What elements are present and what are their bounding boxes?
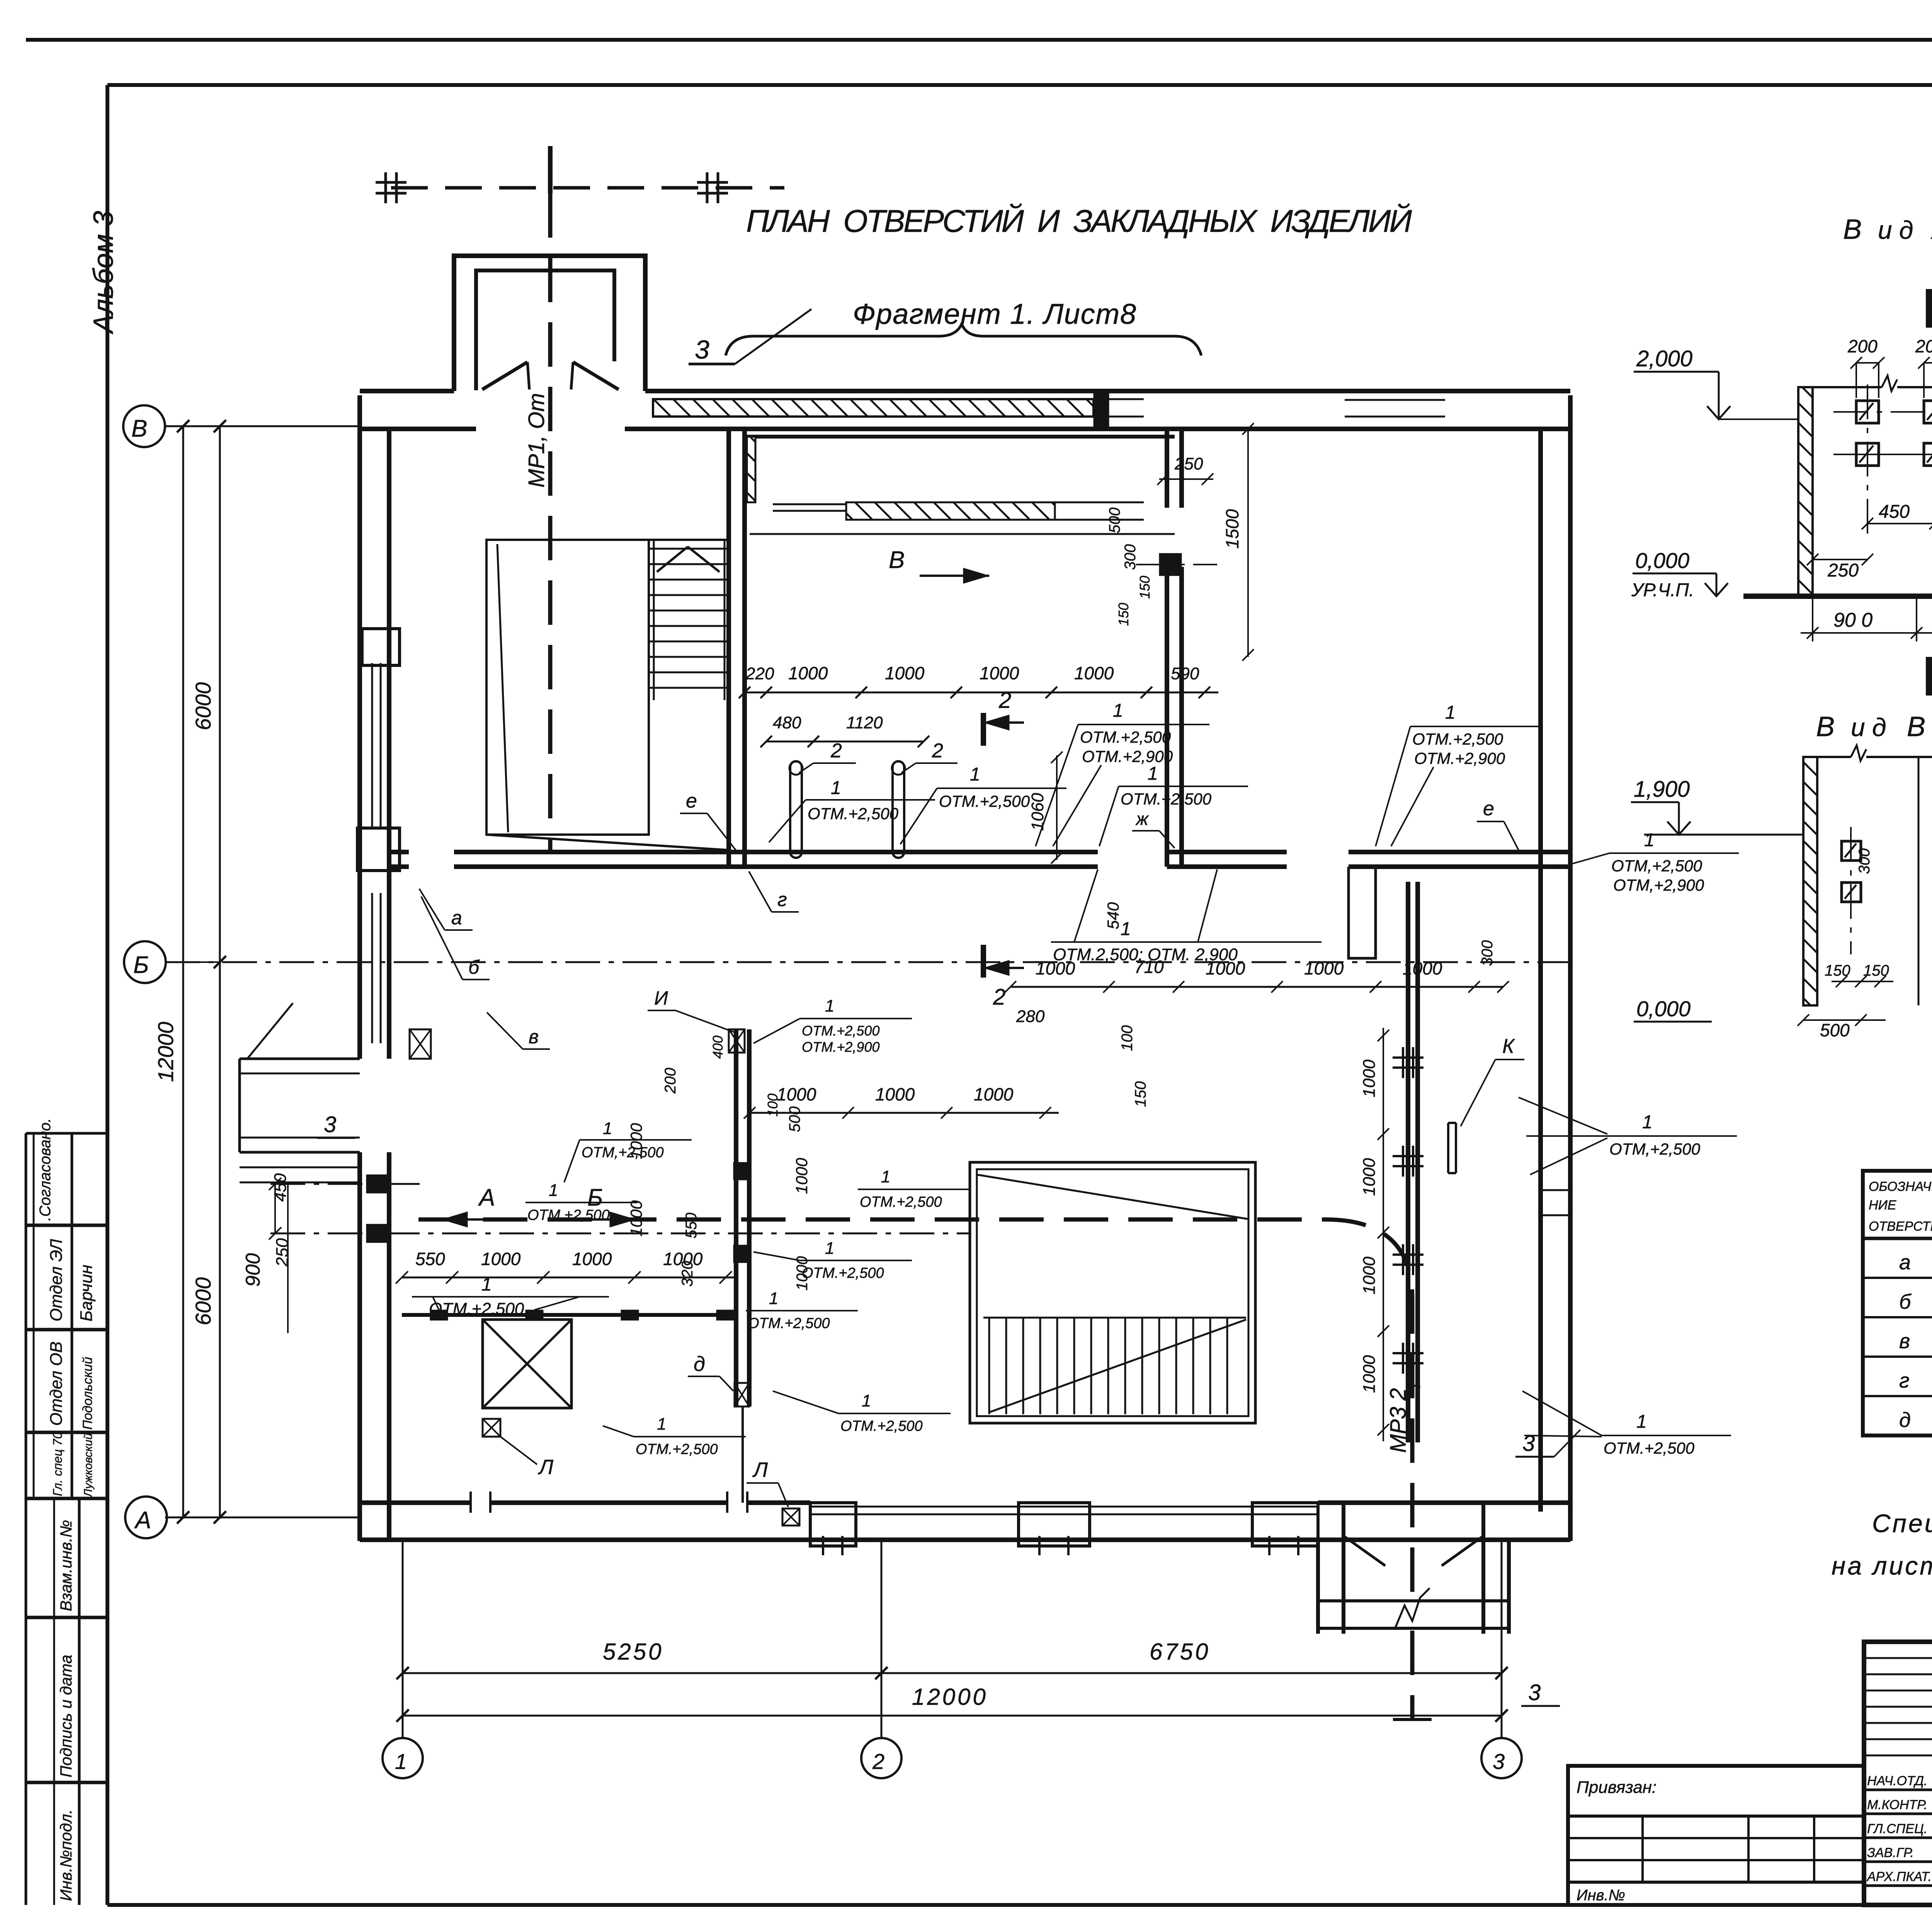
svg-text:в: в <box>529 1026 539 1048</box>
svg-text:1: 1 <box>881 1167 890 1186</box>
svg-text:В: В <box>1843 214 1863 245</box>
stair side rails <box>653 540 655 700</box>
grid circle 3 <box>1481 1738 1522 1778</box>
svg-text:ОТМ.+2,500: ОТМ.+2,500 <box>939 792 1030 810</box>
pillar wall I tail <box>742 1406 744 1503</box>
svg-text:1000: 1000 <box>1360 1355 1379 1393</box>
svg-text:Барчин: Барчин <box>77 1265 96 1321</box>
svg-text:1: 1 <box>1113 701 1123 721</box>
svg-text:ОТМ.+2,500: ОТМ.+2,500 <box>429 1299 524 1318</box>
middle room top dim chain <box>745 692 1218 694</box>
svg-text:ОТМ.+2,500: ОТМ.+2,500 <box>802 1023 880 1039</box>
svg-text:550: 550 <box>683 1213 700 1238</box>
inlet extension inner wall <box>476 270 614 390</box>
svg-text:1000: 1000 <box>572 1249 612 1269</box>
inlet extension outer wall <box>454 256 645 391</box>
sidebar outer line <box>25 1133 27 1905</box>
north wall window hatch band <box>653 399 1094 417</box>
right interior wall <box>1406 882 1410 1442</box>
north wall window thin lines 3 <box>1345 399 1445 401</box>
svg-text:540: 540 <box>1104 902 1122 929</box>
dim chain bottom left <box>402 1277 735 1279</box>
stair in left room <box>649 548 729 550</box>
svg-text:ОТМ.+2,900: ОТМ.+2,900 <box>1082 747 1173 765</box>
svg-text:а: а <box>1899 1251 1911 1274</box>
svg-text:2,000: 2,000 <box>1636 346 1692 371</box>
holes table left grid <box>1863 1171 1932 1435</box>
svg-text:1000: 1000 <box>1036 958 1075 978</box>
svg-text:550: 550 <box>415 1249 445 1269</box>
svg-text:12000: 12000 <box>912 1684 988 1710</box>
svg-text:2: 2 <box>872 1749 884 1774</box>
grid circle 2 <box>861 1738 901 1778</box>
svg-text:1: 1 <box>862 1391 871 1410</box>
svg-text:400: 400 <box>710 1036 726 1059</box>
grid circle B2 row <box>124 941 166 983</box>
south wall glazing lines <box>810 1506 1318 1508</box>
svg-text:1000: 1000 <box>1360 1060 1379 1097</box>
svg-text:ОТМ.+2,500: ОТМ.+2,500 <box>840 1418 923 1434</box>
leader L1 <box>500 1437 537 1464</box>
svg-text:ж: ж <box>1135 809 1149 829</box>
svg-text:ОТМ.+2,500: ОТМ.+2,500 <box>1412 730 1503 748</box>
section mark 2 upper <box>981 713 986 746</box>
axis 1 vertical <box>402 1540 404 1738</box>
svg-text:1000: 1000 <box>1074 663 1114 683</box>
svg-text:.Согласовано.: .Согласовано. <box>37 1118 54 1221</box>
svg-text:К: К <box>1502 1035 1515 1058</box>
south wall piers <box>810 1503 856 1546</box>
svg-text:г: г <box>777 889 787 910</box>
drawing frame top <box>107 83 1932 87</box>
svg-text:Гл. спец 70: Гл. спец 70 <box>51 1432 65 1496</box>
svg-text:ОТМ.+2,500: ОТМ.+2,500 <box>1121 790 1212 808</box>
right wall vertical dim chain <box>1383 1028 1384 1441</box>
bottom spillway walls <box>1316 1540 1320 1634</box>
svg-text:1000: 1000 <box>793 1158 811 1194</box>
svg-text:ОТМ.+2,500: ОТМ.+2,500 <box>1080 728 1171 746</box>
view A ground line <box>1743 594 1932 599</box>
svg-text:250: 250 <box>1174 454 1203 473</box>
svg-text:Подпись и дата: Подпись и дата <box>57 1655 75 1777</box>
bottom dim line 5250-6750 <box>403 1672 1502 1674</box>
view V embed squares <box>1842 841 1861 861</box>
svg-text:В: В <box>889 547 905 573</box>
svg-text:и д: и д <box>1878 216 1913 244</box>
svg-text:90 0: 90 0 <box>1833 609 1872 631</box>
svg-text:300: 300 <box>1479 940 1496 966</box>
privyazan box <box>1568 1766 1864 1905</box>
svg-text:1: 1 <box>1445 702 1456 723</box>
hatched square d on I wall <box>735 1383 749 1406</box>
MP3 break symbol <box>1395 1588 1430 1629</box>
svg-text:д: д <box>694 1352 705 1376</box>
svg-text:д: д <box>1899 1408 1911 1432</box>
svg-text:1000: 1000 <box>974 1084 1014 1104</box>
svg-text:а: а <box>451 907 462 929</box>
dim 1060 vertical <box>1056 755 1058 860</box>
svg-text:1: 1 <box>1644 830 1655 850</box>
svg-text:1: 1 <box>481 1274 492 1295</box>
svg-text:0,000: 0,000 <box>1636 997 1690 1021</box>
svg-text:2: 2 <box>998 688 1011 713</box>
svg-text:1000: 1000 <box>875 1084 915 1104</box>
svg-text:Отдел ОВ: Отдел ОВ <box>47 1342 66 1426</box>
svg-text:900: 900 <box>242 1253 264 1287</box>
view V axis vertical <box>1850 827 1852 954</box>
grid circle 1 <box>383 1738 423 1778</box>
svg-text:ОТМ.+2,500: ОТМ.+2,500 <box>748 1315 830 1332</box>
svg-text:100: 100 <box>765 1094 781 1117</box>
hatched junction square <box>410 1029 431 1059</box>
inlet funnel slants <box>482 362 527 389</box>
west wall <box>357 395 362 1059</box>
svg-text:2: 2 <box>993 985 1005 1010</box>
svg-text:ОТВЕРСТИЙ: ОТВЕРСТИЙ <box>1869 1219 1932 1234</box>
axis MP1 dashed vertical <box>548 146 553 193</box>
axis Bmid dash-dot <box>165 961 1570 963</box>
svg-text:в: в <box>1899 1330 1910 1353</box>
svg-text:1500: 1500 <box>1222 509 1242 549</box>
pillar wall I <box>734 1029 738 1406</box>
svg-text:ЗАВ.ГР.: ЗАВ.ГР. <box>1867 1845 1914 1860</box>
svg-text:ПЛАН ОТВЕРСТИЙ И ЗАКЛАДНЫХ: ПЛАН ОТВЕРСТИЙ И ЗАКЛАДНЫХ ИЗДЕЛИЙ <box>746 203 1413 239</box>
axis MP3 dashed path <box>418 1219 1412 1592</box>
svg-text:1060: 1060 <box>1028 793 1047 831</box>
stair chevron <box>657 547 688 572</box>
svg-text:Лужковский: Лужковский <box>82 1433 95 1498</box>
svg-text:ОТМ,+2,900: ОТМ,+2,900 <box>1613 876 1704 894</box>
landing jog near 710 <box>1349 867 1376 958</box>
svg-text:Альбом 3: Альбом 3 <box>88 211 119 335</box>
svg-text:6750: 6750 <box>1150 1639 1210 1665</box>
plates on lower wall <box>430 1310 448 1320</box>
svg-text:150: 150 <box>1863 962 1889 979</box>
svg-text:220: 220 <box>745 664 774 683</box>
svg-text:НАЧ.ОТД.: НАЧ.ОТД. <box>1867 1774 1927 1788</box>
svg-text:3: 3 <box>1493 1749 1505 1774</box>
svg-text:320: 320 <box>679 1261 696 1287</box>
svg-text:ОТМ,+2,500: ОТМ,+2,500 <box>1609 1140 1701 1158</box>
svg-text:б: б <box>1899 1290 1912 1313</box>
dim chain 480-1120 <box>766 741 923 743</box>
svg-text:1000: 1000 <box>788 663 828 683</box>
svg-text:Б: Б <box>133 952 149 978</box>
svg-text:И: И <box>654 987 668 1009</box>
svg-text:Л: Л <box>538 1456 554 1479</box>
west entrance steps <box>240 1167 360 1168</box>
svg-text:ОТМ.+2,500: ОТМ.+2,500 <box>527 1207 610 1223</box>
svg-text:1000: 1000 <box>885 663 925 683</box>
tank slope line <box>977 1175 1248 1219</box>
svg-text:НИЕ: НИЕ <box>1869 1198 1896 1213</box>
svg-text:1: 1 <box>825 997 834 1015</box>
view A 200 dims <box>1856 362 1879 364</box>
svg-text:ГЛ.СПЕЦ.: ГЛ.СПЕЦ. <box>1867 1821 1927 1836</box>
svg-text:Л: Л <box>752 1458 768 1481</box>
svg-text:г: г <box>1899 1369 1910 1392</box>
svg-text:3: 3 <box>695 335 709 364</box>
svg-text:6000: 6000 <box>191 682 215 730</box>
view A section mark top <box>1926 289 1932 328</box>
machine pit thin outline <box>486 540 649 835</box>
svg-text:1120: 1120 <box>846 713 883 732</box>
svg-text:1,900: 1,900 <box>1634 777 1690 802</box>
vertical dim line 12000 <box>182 426 184 1517</box>
svg-text:300: 300 <box>1122 544 1139 570</box>
svg-text:А: А <box>478 1184 495 1211</box>
middle room north wall <box>746 427 1175 431</box>
sidebar signature block <box>33 1133 35 1498</box>
svg-text:Взам.инв.№: Взам.инв.№ <box>57 1520 75 1611</box>
dash-dot through west plates <box>270 1183 425 1185</box>
svg-text:200: 200 <box>662 1068 679 1094</box>
north wall outer line <box>360 389 454 393</box>
svg-text:6000: 6000 <box>191 1277 215 1325</box>
svg-text:450: 450 <box>271 1173 290 1202</box>
svg-text:450: 450 <box>1879 502 1910 522</box>
svg-text:150: 150 <box>1132 1081 1149 1107</box>
embedded black plates west wall <box>366 1175 388 1193</box>
view A wall strip <box>1798 387 1813 596</box>
gallery segment right <box>1055 502 1144 503</box>
gallery thin lines left <box>773 503 846 505</box>
svg-text:3: 3 <box>1522 1431 1535 1456</box>
extension lines to wall <box>165 425 183 427</box>
grid circle B row <box>123 405 165 447</box>
svg-text:Привязан:: Привязан: <box>1577 1778 1656 1797</box>
svg-text:250: 250 <box>273 1238 292 1267</box>
svg-text:В: В <box>131 415 147 442</box>
svg-text:1000: 1000 <box>1360 1158 1379 1196</box>
gallery hatch band <box>846 502 1055 520</box>
tank stair treads <box>988 1318 990 1414</box>
svg-text:1: 1 <box>657 1415 666 1434</box>
svg-text:ОТМ,+2,500: ОТМ,+2,500 <box>582 1145 664 1161</box>
svg-text:150: 150 <box>1137 576 1153 599</box>
svg-text:МР1, От: МР1, От <box>524 393 549 488</box>
section mark 2 lower <box>981 945 986 978</box>
svg-text:12000: 12000 <box>153 1022 178 1082</box>
svg-text:Инв.№подл.: Инв.№подл. <box>57 1810 75 1901</box>
svg-text:ОТМ,+2,500: ОТМ,+2,500 <box>1611 857 1702 875</box>
east wall <box>1538 429 1543 1512</box>
svg-text:1: 1 <box>1642 1112 1653 1133</box>
svg-text:М.КОНТР.: М.КОНТР. <box>1867 1798 1927 1812</box>
svg-text:е: е <box>1483 798 1494 820</box>
crossed box <box>483 1320 571 1408</box>
east wall window <box>1542 1189 1569 1191</box>
svg-text:ОТМ.+2,900: ОТМ.+2,900 <box>802 1039 880 1055</box>
sidebar std cells <box>53 1498 55 1905</box>
view V inner verticals <box>1918 757 1920 1005</box>
view A embed squares <box>1856 401 1879 423</box>
view V wall strip <box>1803 757 1817 1005</box>
view A 900 dim <box>1801 632 1932 634</box>
svg-text:1: 1 <box>603 1119 612 1138</box>
svg-text:150: 150 <box>1116 603 1131 626</box>
svg-text:1: 1 <box>769 1289 778 1308</box>
top dashed line with hash marks <box>391 186 784 190</box>
svg-text:1: 1 <box>1148 764 1158 784</box>
svg-text:5250: 5250 <box>603 1639 663 1665</box>
svg-text:ОТМ.+2,500: ОТМ.+2,500 <box>808 804 899 823</box>
svg-text:Подольский: Подольский <box>80 1357 95 1430</box>
south wall <box>360 1537 1570 1542</box>
dim chain 1000-710 below axis B wall <box>1010 986 1503 988</box>
svg-text:500: 500 <box>1820 1020 1850 1040</box>
west wall window glazing 2 <box>371 893 373 1043</box>
svg-text:3: 3 <box>1528 1680 1541 1705</box>
svg-text:ОТМ.+2,500: ОТМ.+2,500 <box>1604 1439 1695 1457</box>
drawing frame left <box>105 85 109 1905</box>
svg-text:1: 1 <box>549 1181 558 1200</box>
dim 1500 vertical right room <box>1247 427 1249 657</box>
svg-text:А: А <box>134 1507 151 1534</box>
channel bar 2 <box>893 761 904 858</box>
svg-text:2: 2 <box>830 740 842 762</box>
svg-text:Фрагмент 1. Лист8: Фрагмент 1. Лист8 <box>853 298 1138 330</box>
svg-text:е: е <box>686 790 697 812</box>
view A 250 dim <box>1813 559 1867 560</box>
svg-text:0,000: 0,000 <box>1635 548 1689 573</box>
title block small rows left <box>1864 1657 1932 1659</box>
svg-text:1: 1 <box>1121 919 1131 939</box>
svg-text:1000: 1000 <box>1304 958 1344 978</box>
svg-text:1000: 1000 <box>481 1249 521 1269</box>
embedded black plate top right <box>1159 553 1182 576</box>
svg-text:ОТМ.+2,500: ОТМ.+2,500 <box>860 1194 942 1210</box>
hash symbol 1 <box>384 172 387 203</box>
svg-text:280: 280 <box>1016 1007 1045 1026</box>
fragment brace <box>726 324 1201 355</box>
svg-text:150: 150 <box>1825 962 1850 979</box>
svg-text:1: 1 <box>970 764 980 785</box>
K detail bar <box>1447 1123 1449 1173</box>
svg-text:УР.Ч.П.: УР.Ч.П. <box>1631 580 1694 600</box>
svg-text:1: 1 <box>395 1749 407 1774</box>
title block outer <box>1864 1642 1932 1905</box>
svg-text:300: 300 <box>1856 848 1873 874</box>
axis 3 vertical dashed <box>1501 1540 1503 1738</box>
tank stair diagonal <box>989 1320 1246 1412</box>
machine pit bottom slant <box>486 835 729 850</box>
svg-text:2: 2 <box>932 740 943 762</box>
svg-text:590: 590 <box>1171 664 1199 683</box>
svg-text:100: 100 <box>1119 1025 1136 1051</box>
hash symbols on right wall <box>1402 1047 1404 1078</box>
svg-text:на листе 8.: на листе 8. <box>1832 1551 1932 1580</box>
svg-text:500: 500 <box>1106 507 1123 533</box>
svg-text:А: А <box>1930 214 1932 245</box>
svg-text:480: 480 <box>773 713 801 732</box>
svg-text:Т: Т <box>1405 1379 1424 1391</box>
dim chain near I wall top <box>750 1112 1059 1114</box>
svg-text:500: 500 <box>786 1106 803 1132</box>
svg-text:3: 3 <box>324 1112 336 1137</box>
svg-text:200: 200 <box>1915 336 1932 356</box>
svg-text:ОБОЗНАЧЕ-: ОБОЗНАЧЕ- <box>1869 1179 1932 1194</box>
svg-text:1000: 1000 <box>627 1200 645 1236</box>
svg-text:710: 710 <box>1134 957 1164 977</box>
svg-text:250: 250 <box>1827 560 1859 581</box>
hatched square L2 <box>782 1509 799 1526</box>
axis B wall band <box>389 850 409 854</box>
svg-text:1: 1 <box>1636 1412 1647 1432</box>
svg-text:1: 1 <box>831 778 841 798</box>
west entrance walls <box>240 1058 360 1060</box>
svg-text:ОТМ.+2,500: ОТМ.+2,500 <box>802 1265 884 1281</box>
svg-text:1000: 1000 <box>980 663 1019 683</box>
wall at lower hall south <box>402 1313 735 1317</box>
hatched square near I top <box>729 1029 745 1053</box>
svg-text:Спецификацию закладных: Спецификацию закладных <box>1872 1509 1932 1537</box>
embedded black plates pillar wall <box>733 1162 751 1180</box>
svg-text:ОТМ.+2,500: ОТМ.+2,500 <box>636 1441 718 1458</box>
vertical dim line 6000+6000 <box>219 426 221 1517</box>
bottom dim line 12000 <box>403 1715 1502 1717</box>
svg-text:1000: 1000 <box>1403 958 1442 978</box>
view A section mark bottom <box>1926 657 1932 696</box>
view A wall top line <box>1813 386 1882 388</box>
gallery lower line <box>750 533 1175 535</box>
tank outer rect <box>970 1162 1255 1423</box>
svg-text:и д: и д <box>1851 713 1886 742</box>
tank inner rect <box>977 1169 1248 1416</box>
svg-text:В: В <box>1907 711 1925 742</box>
svg-text:АРХ.ПКАТ.: АРХ.ПКАТ. <box>1866 1869 1932 1884</box>
pier ticks <box>822 1536 824 1555</box>
title block signature rows <box>1864 1789 1932 1791</box>
interior wall between stair room and middle room <box>726 429 731 867</box>
view A 450 dim <box>1867 523 1932 524</box>
west entrance door leaf <box>247 1003 293 1059</box>
svg-text:1000: 1000 <box>777 1084 816 1104</box>
hash symbol 2 <box>706 172 709 203</box>
svg-text:б: б <box>468 956 480 978</box>
svg-text:В: В <box>1816 711 1835 742</box>
north wall inner line <box>360 427 476 431</box>
gallery vertical hatch connector <box>747 437 755 502</box>
drawing frame bottom <box>107 1903 1932 1907</box>
south wall tick openings <box>469 1492 472 1513</box>
svg-text:ОТМ.+2,900: ОТМ.+2,900 <box>1414 749 1505 767</box>
svg-text:МР3 2: МР3 2 <box>1386 1388 1411 1453</box>
sheet outer top border <box>26 38 1932 42</box>
hatched square L1 <box>483 1419 500 1437</box>
svg-text:Отдел ЭЛ: Отдел ЭЛ <box>47 1239 66 1321</box>
grid circle A row <box>125 1497 167 1538</box>
axis A horizontal <box>165 1517 360 1519</box>
view A axis lines <box>1867 384 1868 539</box>
interior wall between middle and right room <box>1165 429 1169 508</box>
svg-text:200: 200 <box>1847 336 1878 356</box>
north wall window thin lines 2 <box>1097 398 1144 400</box>
svg-text:Инв.№: Инв.№ <box>1577 1887 1625 1904</box>
svg-text:1000: 1000 <box>1206 958 1245 978</box>
channel bar 1 <box>790 761 802 858</box>
west wall window piers <box>362 629 400 665</box>
west wall window glazing <box>371 663 373 828</box>
svg-text:1: 1 <box>825 1239 834 1258</box>
view V wall top line <box>1817 756 1851 758</box>
gate leaves <box>1344 1536 1385 1566</box>
axis 2 vertical <box>881 1540 883 1738</box>
north wall pier <box>1094 393 1109 427</box>
svg-text:1000: 1000 <box>1360 1257 1379 1294</box>
axis B horizontal dash-dot <box>165 425 360 427</box>
